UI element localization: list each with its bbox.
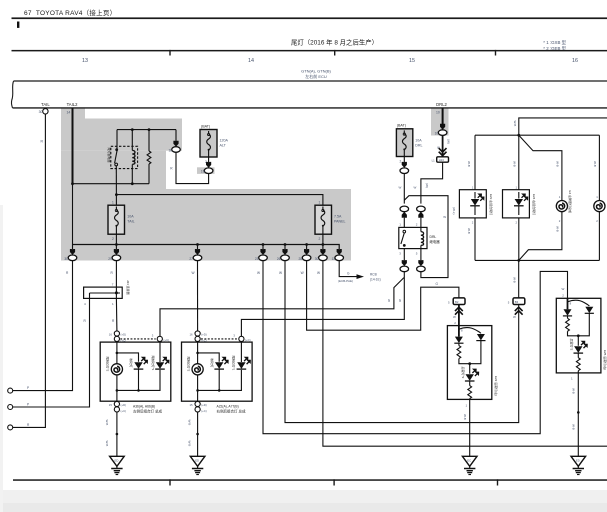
svg-text:W: W [398,299,402,302]
svg-text:1: 1 [516,185,518,189]
svg-text:W-B: W-B [188,441,192,447]
connector 1E [172,141,181,153]
ground lamp1 [110,456,125,474]
svg-text:(14-1E): (14-1E) [370,277,381,281]
svg-text:8: 8 [570,302,572,306]
svg-text:29: 29 [108,257,112,261]
wire sw to TAIL fuse [115,195,117,206]
svg-text:E25 后雾灯(右): E25 后雾灯(右) [603,350,607,370]
fuse 10A DRL [396,129,412,157]
svg-text:3: 3 [152,334,154,338]
lamp2 pair dashed link [201,338,237,340]
svg-text:左右前 ECU: 左右前 ECU [305,73,327,79]
node bottom rail left [73,183,150,185]
svg-text:30: 30 [315,257,319,261]
drop 339.2 to RCB arrow [339,261,356,277]
svg-text:B3: B3 [515,300,519,304]
svg-text:(+C): (+C) [164,338,170,342]
svg-text:10: 10 [436,111,440,115]
wire to H13 [442,136,444,157]
bottom tick 3 [497,479,498,485]
svg-text:P: P [27,402,29,406]
lamp1 top connectors [114,331,119,336]
svg-text:W-B: W-B [513,121,517,127]
fog L LED [469,364,471,374]
DRL return line to lamp2 [241,272,404,336]
svg-text:G: G [436,282,439,286]
svg-text:TAIL: TAIL [127,220,134,224]
svg-text:* 2 :GEB 型: * 2 :GEB 型 [543,45,566,51]
relay coil [131,130,133,151]
svg-text:(+D): (+D) [121,333,127,337]
svg-text:RCB: RCB [370,272,377,276]
svg-text:尾制动灯*2: 尾制动灯*2 [106,357,111,372]
svg-text:L1: L1 [432,159,436,163]
svg-text:3: 3 [399,252,401,256]
svg-text:15: 15 [190,403,194,407]
svg-text:W-B: W-B [105,420,109,426]
svg-text:2: 2 [596,219,598,223]
svg-text:1: 1 [399,223,401,227]
wire fuse to relay pin1 [403,174,405,204]
fuse 10A TAIL [108,205,125,234]
svg-text:W-B: W-B [467,161,471,167]
svg-text:10A: 10A [127,215,134,219]
svg-text:H13: H13 [439,158,445,162]
inline connector H13 [437,157,449,162]
footer gray strip [0,490,607,512]
svg-text:2: 2 [319,237,321,241]
ruler tick 1 [169,50,170,56]
ground fog R [571,456,586,474]
svg-text:2: 2 [205,160,207,164]
connector row on bus [68,249,77,261]
bus bar [73,245,340,250]
svg-text:(+D): (+D) [201,333,207,337]
branch to coil loop [404,196,448,278]
svg-text:W: W [414,186,417,190]
svg-text:30: 30 [39,110,43,114]
svg-text:B2: B2 [455,300,459,304]
svg-text:W-B: W-B [556,161,560,167]
relay top rail [117,129,176,131]
fog L diode 2 with hook [459,328,481,334]
drop 306.6 feeds X-connector B2 [307,261,459,331]
svg-text:23: 23 [255,257,259,261]
bottom tick 2 [333,479,334,485]
svg-text:ED: ED [576,459,580,463]
svg-text:1E: 1E [169,149,173,153]
svg-text:R: R [41,140,44,144]
svg-text:W-B: W-B [188,420,192,426]
fuse 120A ALT [200,130,217,158]
fog L ground wire [469,399,471,456]
drop 322.9 off page right [323,261,607,447]
lamp2 bottom connectors [195,401,200,406]
svg-text:5: 5 [508,300,510,304]
svg-text:E22 后雾灯(左): E22 后雾灯(左) [494,376,499,396]
rear lamp assy RIGHT box [182,342,253,401]
svg-text:8: 8 [461,329,463,333]
svg-text:右侧后组合灯 总成: 右侧后组合灯 总成 [217,409,246,414]
ground fog L [462,456,477,474]
ruler tick 3 [495,50,496,56]
fuse contact dots [208,133,210,135]
drop 285 feeds X-connector B3 [285,261,519,423]
fog L resistor 2 [468,386,472,399]
svg-text:W-B: W-B [463,414,467,420]
svg-text:P: P [27,386,29,390]
feed line top right to loop [519,118,607,135]
svg-text:1: 1 [112,200,114,204]
svg-text:W: W [387,299,391,302]
connector TAIL ring [43,109,48,114]
svg-text:GTN(A), GTN(B): GTN(A), GTN(B) [301,69,331,74]
svg-text:16: 16 [109,333,113,337]
fog L diode 1 [454,337,463,344]
top band box [11,81,13,108]
svg-text:R: R [112,319,115,323]
lamp1 bulb circuit [116,342,118,364]
relay switch [116,130,118,149]
wire TAIL drop [13,114,46,428]
wire to connector 1E [175,130,177,144]
svg-text:16: 16 [572,58,578,64]
svg-text:W-B: W-B [572,424,576,430]
svg-text:W-B: W-B [556,226,560,232]
svg-text:制动灯: 制动灯 [129,359,134,368]
junction block J/C [84,287,123,298]
fog R resistor 2 [576,358,580,371]
drop 197.5 to lamp2 [197,261,199,331]
lamp2 bulb circuit [197,342,199,364]
relay TAIL/DRL RLY dashed box [111,146,138,168]
svg-text:尾灯继电器: 尾灯继电器 [107,148,112,163]
gray tag behind 1B [197,167,215,174]
bottom tick 1 [169,479,170,485]
svg-text:R: R [84,319,87,323]
svg-text:4: 4 [84,302,86,306]
relay DRL box [399,227,427,248]
svg-text:W-B: W-B [105,441,109,447]
svg-text:7: 7 [112,283,114,287]
fog R diode 1 [563,309,572,316]
svg-text:ALT: ALT [220,144,227,148]
svg-text:2: 2 [516,220,518,224]
svg-text:尾制动灯*1: 尾制动灯*1 [151,356,156,371]
svg-text:7.5A: 7.5A [334,215,342,219]
svg-text:E24 右组合尾灯: E24 右组合尾灯 [532,194,537,215]
fog L resistor 1 [457,346,461,359]
svg-text:后雾灯*2: 后雾灯*2 [569,339,574,351]
gray zone C [61,151,166,189]
X connector B3 chain [518,260,520,298]
svg-text:1: 1 [571,377,573,381]
svg-text:10: 10 [435,132,439,136]
svg-text:R: R [27,423,30,427]
svg-text:1: 1 [559,195,561,199]
svg-text:后雾灯*2: 后雾灯*2 [461,367,466,379]
svg-text:13: 13 [82,58,88,64]
svg-text:1: 1 [112,302,114,306]
gray col DRL2 [431,108,449,136]
lamp1 bottom connectors [114,401,119,406]
svg-text:11: 11 [332,257,336,261]
license lamp loop box [475,134,599,136]
svg-text:(+D): (+D) [201,403,207,407]
svg-text:制动灯: 制动灯 [210,359,215,368]
svg-text:W: W [301,271,304,275]
gray zone D bus band [61,189,351,261]
svg-text:W-B: W-B [513,161,517,167]
svg-text:(BAT): (BAT) [201,124,210,128]
svg-text:尾制动灯*2: 尾制动灯*2 [186,357,191,372]
svg-text:W-B: W-B [513,277,517,283]
svg-text:R: R [66,271,69,275]
svg-text:2: 2 [559,219,561,223]
lamp1 pair dashed link [120,338,155,340]
LED tail box R [503,190,530,218]
svg-text:2: 2 [416,223,418,227]
svg-text:W: W [562,287,565,291]
svg-text:(BAT): (BAT) [397,124,406,128]
svg-text:1: 1 [472,185,474,189]
svg-text:J24 连接器: J24 连接器 [126,280,131,295]
wire H13 to relay pin2 [421,162,443,203]
relay pins bottom [404,249,421,263]
svg-text:E23 左组合尾灯: E23 左组合尾灯 [489,194,494,215]
svg-text:W: W [279,271,282,275]
svg-text:30: 30 [64,257,68,261]
svg-text:A22(A), A77(B): A22(A), A77(B) [217,404,239,408]
JC second wire to terminal2 [13,293,90,407]
svg-text:2: 2 [472,220,474,224]
ruler line [12,50,607,52]
fog R ground wire [577,373,579,456]
svg-text:67 TOYOTA RAV4（接上页）: 67 TOYOTA RAV4（接上页） [24,8,116,17]
gray zone B relay area [61,119,182,151]
wire JC to lamp1 [115,298,118,331]
fog R diode 2 with hook [568,300,590,306]
svg-text:* 1 :GXB 型: * 1 :GXB 型 [543,39,566,45]
svg-text:W: W [317,271,320,275]
svg-text:2: 2 [400,160,402,164]
svg-text:(ECB-PAE): (ECB-PAE) [338,279,353,283]
svg-text:16: 16 [190,333,194,337]
gray zone A col left [61,108,85,119]
svg-text:120A: 120A [220,139,229,143]
svg-text:15: 15 [109,403,113,407]
svg-text:尾制动灯*1: 尾制动灯*1 [232,356,237,371]
wire DRL2 feed thick [442,108,444,126]
LED tail box L [459,190,486,218]
rear lamp assy LEFT box [100,342,171,401]
svg-text:5: 5 [416,252,418,256]
wire 1E loop to ALT fuse [176,152,209,183]
svg-text:尾灯（2016 年 8 月之后生产）: 尾灯（2016 年 8 月之后生产） [291,38,378,47]
relay pin arrows top [400,206,409,218]
svg-text:DRL2: DRL2 [436,102,447,107]
svg-text:1: 1 [596,195,598,199]
fog R LED [577,336,579,346]
fuse 7.5A PANEL [315,205,332,234]
header rule [12,17,607,19]
svg-text:W: W [192,271,195,275]
connector 1B [204,162,213,174]
svg-text:(W): (W) [425,183,429,188]
svg-text:W: W [513,315,516,319]
bottom page border [13,479,607,481]
svg-text:ED: ED [195,459,199,463]
svg-text:TAIL: TAIL [41,102,50,107]
connector DRL2 [438,124,447,136]
wire TAIL2 feed thick [72,108,74,184]
drop 263 feeds fog lamp R via loop [263,261,568,434]
svg-text:(+C): (+C) [201,409,207,413]
svg-text:(W): (W) [447,139,451,144]
svg-text:(+C): (+C) [121,409,127,413]
rear fog lamp assy L box [447,326,491,400]
rear fog lamp assy R box [556,298,601,373]
svg-text:(W-L): (W-L) [452,207,456,214]
fog R resistor 1 [566,318,570,331]
wire sw out to PANEL fuse [116,195,323,206]
svg-text:26: 26 [277,257,281,261]
svg-text:W-B: W-B [467,228,471,234]
left page edge strip [0,205,3,512]
svg-text:10A: 10A [415,139,422,143]
svg-text:左侧后组合灯 总成: 左侧后组合灯 总成 [133,409,162,414]
svg-text:W-B: W-B [572,388,576,394]
svg-text:DRL: DRL [430,235,437,239]
svg-text:28: 28 [299,257,303,261]
svg-text:PANEL: PANEL [334,220,346,224]
wire TAIL2 to bus [72,184,74,245]
svg-text:1B: 1B [201,170,205,174]
svg-text:W: W [453,315,456,319]
bus drops with connectors [115,243,118,246]
svg-text:14: 14 [67,111,71,115]
license bulb R [594,201,605,212]
splice chevrons H13 [439,148,447,156]
svg-text:R: R [170,167,173,171]
svg-text:1: 1 [319,200,321,204]
svg-text:E4 左牌照灯总成: E4 左牌照灯总成 [568,191,573,214]
svg-text:R: R [111,271,114,275]
ground lamp2 [190,456,205,474]
svg-text:3: 3 [233,334,235,338]
svg-text:W: W [399,186,402,190]
connector under DRL fuse [400,162,409,174]
svg-text:27: 27 [189,257,193,261]
svg-text:(+D): (+D) [121,403,127,407]
svg-text:G: G [347,271,350,275]
svg-text:1: 1 [466,404,468,408]
DRL return line to lamp1 [160,278,404,337]
bookmark bar [17,22,19,28]
ruler tick 2 [334,50,335,56]
license bulb L [556,201,567,212]
svg-text:A36(A), A66(B): A36(A), A66(B) [133,404,155,408]
svg-text:5: 5 [448,300,450,304]
drop 72.5 to terminal1 [13,261,73,391]
terminal rings left [8,388,13,393]
lamp2 ground wire [197,412,199,456]
svg-text:W: W [443,215,446,219]
svg-text:14: 14 [248,58,254,64]
svg-text:DRL: DRL [415,144,422,148]
svg-text:(+C): (+C) [245,338,251,342]
svg-text:继电器: 继电器 [430,239,441,244]
svg-text:W-B: W-B [593,161,597,167]
svg-text:EC: EC [467,459,471,463]
svg-text:2: 2 [454,321,456,325]
lamp1 ground wire [116,412,118,456]
svg-text:15: 15 [409,58,415,64]
svg-text:2: 2 [112,237,114,241]
svg-text:W: W [257,271,260,275]
lamp2 top connectors [195,331,200,336]
node sw out [115,193,118,196]
svg-text:ED: ED [115,459,119,463]
svg-text:2: 2 [562,293,564,297]
svg-text:TAIL2: TAIL2 [67,102,79,107]
drop 116.4 to JC [115,261,117,287]
resistor beside relay [148,130,150,151]
X connector B2 chain [455,307,463,315]
